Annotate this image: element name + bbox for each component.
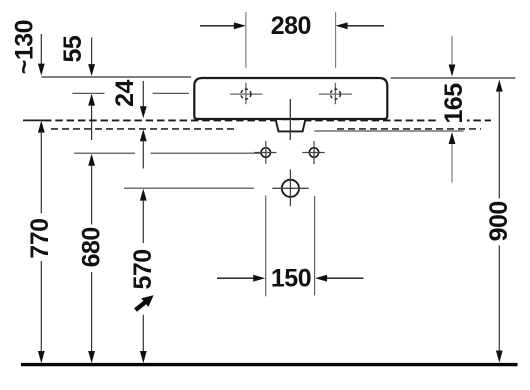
faucet hole right cross — [319, 83, 352, 104]
svg-text:680: 680 — [77, 227, 105, 267]
mounting hole left — [261, 148, 270, 157]
dimension 570 line — [140, 189, 147, 201]
dimension ~130 arrow line — [40, 34, 42, 64]
leader line 680 to mounting hole — [74, 152, 261, 154]
mounting hole right — [309, 148, 318, 157]
hidden edge dashed line upper — [23, 119, 44, 121]
dimension 280 extension line right — [335, 12, 337, 68]
svg-text:770: 770 — [26, 218, 54, 258]
dimension 280 left arrow — [200, 25, 235, 27]
faucet hole left cross — [230, 83, 262, 104]
hidden edge dashed line lower — [51, 128, 236, 130]
drain outlet trapezoid — [276, 120, 305, 131]
centerline through drain — [289, 99, 291, 140]
dimension 280 right arrow — [347, 25, 384, 27]
dimension 770 line — [38, 121, 45, 133]
faucet hole right dashed circle — [330, 89, 340, 99]
dimension 900 line — [496, 80, 503, 92]
svg-text:150: 150 — [271, 265, 311, 293]
drain hole circle — [282, 180, 299, 197]
drain hole cross — [272, 169, 308, 206]
dimension 280 extension line left — [245, 12, 247, 68]
dimension 680 line — [88, 154, 95, 166]
svg-text:~130: ~130 — [11, 20, 39, 74]
dimension 150 extension line right — [314, 196, 316, 296]
bold northeast arrow — [136, 301, 147, 310]
dimension 24 upper arrow — [142, 81, 144, 107]
svg-text:900: 900 — [485, 201, 513, 241]
dimension 150 right arrow — [327, 277, 364, 279]
dimension 150 extension line left — [265, 196, 267, 297]
dimension 165 upper arrow — [451, 36, 453, 65]
svg-text:55: 55 — [59, 35, 87, 62]
dimension 165 lower arrow — [449, 132, 456, 144]
floor line — [21, 363, 518, 366]
shelf line right of drain — [314, 130, 463, 132]
svg-text:165: 165 — [440, 83, 468, 124]
top reference line left — [42, 76, 192, 78]
dimension 55 lower arrow — [88, 94, 95, 106]
washbasin outline — [194, 78, 387, 119]
svg-text:280: 280 — [271, 12, 311, 40]
leader line 570 to drain — [124, 187, 254, 189]
dimension 24 lower arrow — [140, 129, 147, 141]
faucet hole left dashed circle — [241, 89, 251, 99]
svg-text:570: 570 — [129, 249, 157, 289]
top reference line right — [391, 77, 516, 79]
tick line 55 bottom — [72, 92, 189, 94]
dimension 150 left arrow — [217, 277, 254, 279]
dimension 55 upper arrow — [91, 38, 93, 65]
svg-text:24: 24 — [111, 80, 139, 107]
